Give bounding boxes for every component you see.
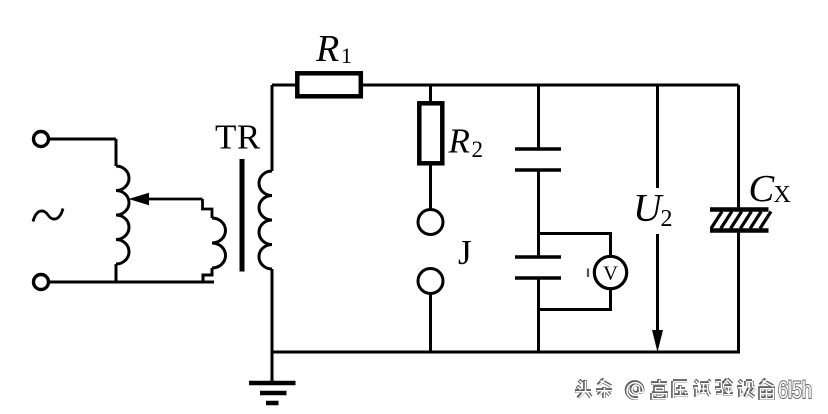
terminal T1 (top input)	[34, 132, 49, 147]
tap arrow (variac wiper)	[129, 193, 203, 206]
wire bottom rail	[271, 351, 741, 354]
ground	[249, 352, 296, 403]
svg-text:U: U	[633, 186, 664, 230]
svg-text:R: R	[448, 122, 470, 161]
wire variac bottom lead	[115, 264, 118, 282]
svg-text:J: J	[458, 233, 472, 272]
wire bottom input rail	[49, 281, 214, 284]
wire ball gap to bottom rail	[429, 294, 432, 353]
wire R2 stub	[429, 85, 432, 104]
resistor R1	[297, 73, 361, 96]
capacitor C1 (divider upper)	[515, 149, 561, 170]
wire tap jog to TR primary	[203, 199, 213, 218]
label R2	[448, 122, 484, 163]
wire TR primary bottom jog	[203, 268, 212, 282]
svg-text:6l5h: 6l5h	[778, 377, 812, 404]
svg-text:2: 2	[472, 137, 484, 162]
svg-text:V: V	[603, 263, 618, 285]
label U2	[633, 186, 673, 233]
wire top rail to R1	[272, 84, 297, 87]
svg-text:1: 1	[341, 43, 352, 68]
spark gap ball 2	[418, 269, 443, 294]
voltmeter V	[588, 256, 627, 288]
AC source symbol ~	[33, 209, 63, 222]
wire divider stub	[537, 85, 540, 148]
wire TR secondary top lead	[271, 85, 274, 171]
svg-text:X: X	[774, 182, 791, 208]
terminal T2 (bottom input)	[34, 275, 49, 290]
spark gap ball 1	[418, 210, 443, 235]
label CX	[749, 168, 791, 210]
transformer TR secondary winding	[259, 171, 272, 269]
wire U2 measurement line lower with arrowhead	[652, 234, 663, 352]
wire voltmeter to divider bottom	[539, 289, 611, 310]
wire TR secondary bottom lead	[271, 269, 274, 354]
transformer TR core	[240, 159, 245, 272]
wire top rail	[363, 84, 739, 87]
autotransformer (variac) winding	[116, 166, 129, 264]
wire variac top lead	[115, 139, 118, 166]
transformer TR primary winding	[212, 218, 226, 268]
resistor R2	[419, 103, 442, 163]
svg-text:TR: TR	[215, 118, 261, 157]
wire right rail bottom	[737, 233, 740, 353]
wire top input to variac	[49, 138, 117, 141]
wire tap to voltmeter	[539, 234, 611, 257]
capacitor C2 (divider lower)	[515, 257, 561, 278]
wire right rail top	[737, 85, 740, 208]
test capacitor CX	[710, 210, 771, 231]
svg-text:C: C	[749, 168, 776, 210]
wire between C1 and C2	[537, 172, 540, 256]
wire R2 to ball gap	[429, 166, 432, 210]
label R1	[315, 28, 352, 70]
wire C2 to bottom rail	[537, 280, 540, 353]
svg-text:2: 2	[661, 206, 673, 232]
svg-text:R: R	[315, 28, 339, 70]
wire U2 measurement line upper	[656, 85, 659, 188]
